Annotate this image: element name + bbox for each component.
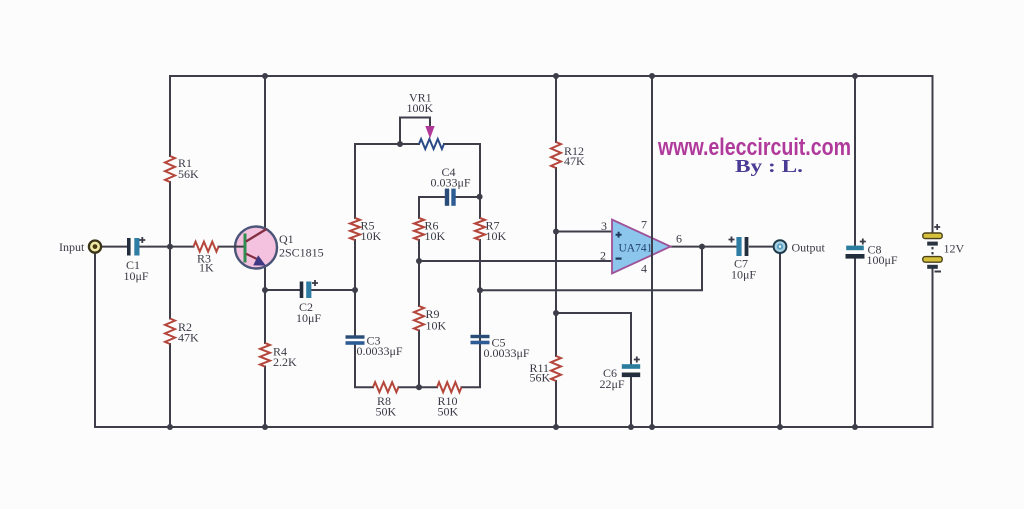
resistor R7	[475, 218, 485, 240]
capacitor C2 plate negative	[300, 282, 304, 299]
transistor Q1 body	[235, 227, 277, 269]
node bottom rail C6	[628, 424, 634, 430]
capacitor C1 plus	[139, 237, 145, 243]
wire C6 bottom lead	[630, 378, 632, 427]
resistor R2	[165, 319, 175, 344]
resistor R11	[551, 356, 561, 381]
svg-text:0.0033μF: 0.0033μF	[484, 346, 530, 360]
wire pin7 pin4 vertical	[651, 76, 653, 427]
wire R1 to input node	[169, 182, 171, 319]
svg-text:0.033μF: 0.033μF	[431, 176, 471, 190]
node bottom rail R4	[262, 424, 268, 430]
wire R4 to bottom rail	[264, 367, 266, 428]
svg-text:56K: 56K	[178, 167, 199, 181]
wire Q1 collector to top rail	[264, 76, 266, 228]
wire C8 top lead	[854, 76, 856, 245]
svg-text:10K: 10K	[425, 229, 446, 243]
wire battery bottom lead	[932, 269, 934, 428]
node bottom rail output	[777, 424, 783, 430]
output jack center	[779, 245, 781, 247]
capacitor C7 plate negative	[745, 237, 749, 256]
wire R2 to bottom rail	[169, 344, 171, 427]
capacitor C6 plus	[634, 357, 640, 363]
wire C1 to R3	[140, 246, 194, 248]
battery dashed link	[932, 247, 934, 256]
wire R11 to bottom rail	[555, 381, 557, 427]
wire inverting input (pin 2)	[419, 260, 612, 262]
Q1 base bar	[244, 234, 247, 263]
capacitor C5 plate bottom	[471, 341, 490, 345]
resistor R12	[551, 142, 561, 168]
input jack J1	[89, 241, 101, 253]
node output feedback	[699, 244, 705, 250]
wire R3 to Q1 base	[219, 246, 244, 248]
wire C6 branch horizontal	[556, 312, 631, 314]
capacitor C8 plate negative	[846, 254, 865, 259]
wire Q1 base inside	[234, 246, 244, 248]
wire R12 top lead	[555, 76, 557, 142]
wire C7 to output jack	[750, 246, 774, 248]
op-amp plus input mark	[616, 232, 622, 238]
svg-text:56K: 56K	[530, 371, 551, 385]
svg-text:2SC1815: 2SC1815	[279, 246, 324, 260]
node R11 C6	[553, 310, 559, 316]
wire emitter node to C2	[265, 289, 300, 291]
svg-text:10μF: 10μF	[124, 269, 149, 283]
wire VR1 row left lead	[355, 143, 419, 145]
svg-text:10K: 10K	[361, 229, 382, 243]
capacitor C8 plate positive	[846, 246, 864, 251]
wire C2 to node A	[312, 289, 356, 291]
capacitor C6 plate positive	[622, 364, 640, 369]
node VR1 wiper tap	[397, 141, 403, 147]
node input R1 R2	[167, 244, 173, 250]
wire C3 to R8 corner	[355, 345, 373, 387]
capacitor C4 plate right	[451, 189, 455, 206]
node bottom rail R11	[553, 424, 559, 430]
svg-text:Q1: Q1	[279, 232, 294, 246]
svg-text:2.2K: 2.2K	[273, 355, 297, 369]
svg-text:10μF: 10μF	[731, 268, 756, 282]
wire input jack down	[94, 253, 96, 427]
capacitor C8 plus	[860, 239, 866, 245]
node C4 R7	[477, 194, 483, 200]
resistor R6	[414, 218, 424, 240]
wire VR1 wiper bracket	[400, 118, 430, 145]
node C2 R5 C3	[352, 287, 358, 293]
node bottom rail pin4	[649, 424, 655, 430]
capacitor C5 plate top	[471, 335, 490, 338]
wire R8 to R10	[399, 386, 438, 388]
node top rail C8	[852, 73, 858, 79]
node emitter C2	[262, 287, 268, 293]
svg-text:100μF: 100μF	[867, 253, 898, 267]
capacitor C3 plate top	[346, 335, 365, 338]
wire VR1 row right lead	[444, 143, 480, 145]
battery B1 plate long top	[923, 233, 942, 239]
svg-text:10K: 10K	[426, 319, 447, 333]
wire non-inverting input (pin 3)	[556, 231, 612, 233]
svg-text:Output: Output	[792, 241, 826, 255]
resistor R1	[165, 156, 175, 182]
svg-text:10K: 10K	[486, 229, 507, 243]
svg-text:12V: 12V	[944, 242, 965, 256]
wire C8 bottom lead	[854, 260, 856, 428]
battery plus	[934, 224, 940, 230]
output jack J2	[774, 240, 787, 253]
resistor R10	[437, 382, 461, 392]
output jack inner ring	[777, 244, 783, 250]
capacitor C2 plus	[312, 280, 318, 286]
svg-text:3: 3	[601, 219, 607, 233]
svg-text:22μF: 22μF	[600, 377, 625, 391]
capacitor C1 plate positive	[134, 238, 139, 256]
svg-text:47K: 47K	[564, 154, 585, 168]
wire R1 branch upper	[169, 76, 171, 156]
capacitor C2 plate positive	[306, 282, 311, 299]
capacitor C7 plate positive	[736, 237, 741, 256]
svg-text:6: 6	[676, 232, 682, 246]
svg-text:1K: 1K	[199, 261, 214, 275]
wire pin7 pin4 over op-amp	[651, 200, 653, 300]
battery plate short bottom	[927, 265, 938, 269]
wire C4 left lead	[419, 196, 445, 198]
svg-text:7: 7	[641, 218, 647, 232]
wire VR1 left lead down to R5	[354, 144, 356, 218]
wire top rail	[170, 75, 933, 77]
Q1 emitter stroke	[246, 254, 258, 260]
node bottom rail C8	[852, 424, 858, 430]
svg-text:4: 4	[641, 262, 647, 276]
wire input jack to C1	[102, 246, 128, 248]
wire R5 to C3	[354, 240, 356, 335]
capacitor C7 plus	[729, 237, 735, 243]
op-amp U1 body	[612, 220, 671, 274]
wire Q1 emitter down	[264, 264, 266, 343]
Q1 emitter arrow	[253, 255, 266, 265]
node R8 R9 R10	[416, 384, 422, 390]
wire op-amp output to C7	[670, 246, 736, 248]
svg-text:50K: 50K	[438, 405, 459, 419]
svg-text:Input: Input	[59, 240, 85, 254]
capacitor C6 plate negative	[622, 373, 640, 378]
capacitor C3 plate bottom	[346, 341, 365, 345]
resistor R4	[260, 343, 270, 367]
wire C4 right lead	[456, 196, 480, 198]
wire R12 to R11	[555, 168, 557, 356]
Q1 collector stroke	[246, 229, 267, 242]
wire R10 to right corner up	[462, 240, 481, 387]
node feedback R7 C5	[477, 287, 483, 293]
input jack center	[93, 244, 98, 249]
capacitor C1 plate negative	[127, 238, 131, 256]
node top rail collector	[262, 73, 268, 79]
wire feedback drop	[480, 247, 702, 291]
wire bottom rail	[95, 426, 933, 428]
node R12 pin3	[553, 229, 559, 235]
resistor R5	[350, 218, 360, 240]
resistor R3	[194, 242, 219, 252]
wire R9 to R8 node	[418, 331, 420, 388]
battery plate short top	[927, 242, 938, 246]
node bottom rail R2	[167, 424, 173, 430]
svg-text:By : L.: By : L.	[735, 156, 803, 176]
VR1 wiper arrow	[425, 126, 434, 139]
svg-text:2: 2	[600, 249, 606, 263]
node top rail R12	[553, 73, 559, 79]
resistor R8	[373, 382, 398, 392]
capacitor C4 plate left	[445, 189, 449, 206]
svg-text:100K: 100K	[407, 101, 434, 115]
wire R7 top to C4 node	[479, 144, 481, 218]
svg-text:50K: 50K	[376, 405, 397, 419]
node R6 pin2	[416, 258, 422, 264]
resistor R9	[414, 306, 424, 330]
wire output jack down	[779, 253, 781, 427]
svg-text:47K: 47K	[178, 331, 199, 345]
op-amp minus input mark	[616, 258, 622, 260]
battery minus	[935, 271, 942, 273]
wire C4 node down to R6	[418, 197, 420, 218]
svg-text:UA741: UA741	[619, 243, 653, 255]
svg-text:10μF: 10μF	[296, 311, 321, 325]
node top rail pin7	[649, 73, 655, 79]
wire C6 top lead	[630, 313, 632, 364]
svg-text:0.0033μF: 0.0033μF	[357, 344, 403, 358]
potentiometer VR1 element	[419, 139, 444, 149]
wire battery top lead	[932, 76, 934, 233]
battery plate long bottom	[923, 257, 942, 263]
wire R6 to R9	[418, 240, 420, 306]
